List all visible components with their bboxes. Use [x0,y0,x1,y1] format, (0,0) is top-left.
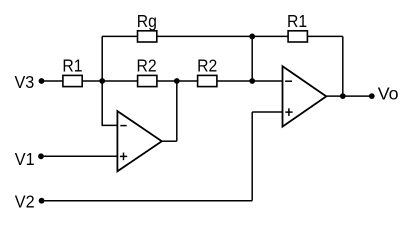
svg-text:V1: V1 [15,149,35,169]
svg-text:Vo: Vo [378,83,399,103]
svg-text:R1: R1 [287,11,307,31]
svg-text:R2: R2 [197,56,217,76]
svg-text:R1: R1 [62,56,82,76]
svg-text:R2: R2 [137,56,157,76]
svg-text:V2: V2 [15,192,35,212]
svg-text:Rg: Rg [137,11,157,31]
svg-text:V3: V3 [14,72,34,92]
